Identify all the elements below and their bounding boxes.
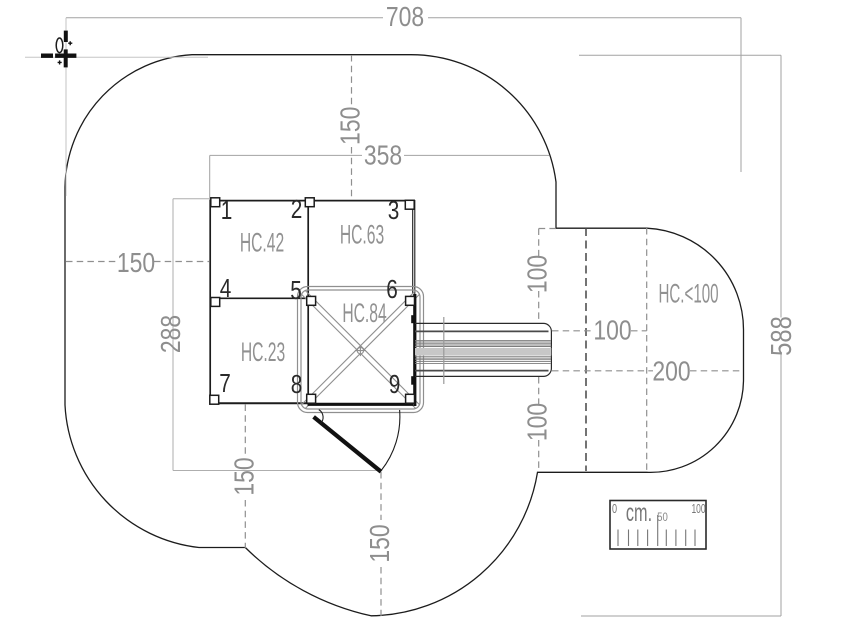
zone line dark dashed (585, 228, 587, 471)
svg-text:6: 6 (386, 275, 398, 304)
slide seam (443, 317, 445, 384)
post 9 (406, 394, 415, 403)
slide bed lines lower (415, 357, 551, 364)
post 2 (305, 198, 314, 207)
svg-text:2: 2 (291, 195, 303, 224)
post 7 (210, 395, 219, 404)
svg-text:288: 288 (156, 315, 187, 353)
svg-text:150: 150 (229, 457, 260, 495)
frame bottom rail (210, 402, 308, 404)
svg-text:100: 100 (593, 315, 631, 346)
centerline 150 top (351, 55, 353, 199)
dimension 708 extension right (740, 18, 742, 172)
dimension 708 extension left (65, 18, 67, 196)
origin plus bottom-left (58, 60, 62, 64)
svg-text:1: 1 (221, 196, 233, 225)
dimension 588 extension top (579, 54, 781, 56)
svg-text:50: 50 (657, 511, 668, 524)
slide rail bottom (415, 370, 549, 372)
post 4 (211, 298, 220, 307)
dimension 588 extension bottom (581, 615, 781, 617)
slide rail top (415, 330, 549, 332)
svg-text:708: 708 (386, 2, 424, 33)
post 6 (406, 296, 415, 305)
svg-text:4: 4 (220, 274, 232, 303)
svg-text:HC.63: HC.63 (340, 219, 384, 250)
gate hinge arc (319, 410, 323, 424)
dimension 358 extension left (209, 155, 211, 200)
deck frame inner (301, 290, 420, 409)
deck barrier right (413, 294, 416, 406)
frame middle rail vertical (307, 200, 309, 404)
post 1 (211, 198, 220, 207)
svg-text:150: 150 (365, 524, 396, 562)
safety zone rectangle left edge (172, 199, 174, 471)
deck center hub (355, 345, 366, 356)
centerline 150 left (66, 261, 209, 263)
dimension 708 line (66, 17, 741, 19)
svg-text:150: 150 (117, 248, 155, 279)
svg-text:7: 7 (219, 369, 231, 398)
play area outline (65, 55, 744, 616)
svg-text:HC.<100: HC.<100 (658, 278, 718, 309)
svg-text:100: 100 (523, 403, 554, 441)
slide bracket bottom (411, 376, 414, 385)
zone line dashed right (646, 228, 648, 471)
svg-text:588: 588 (765, 316, 798, 356)
safety zone rectangle bottom edge (173, 470, 381, 472)
svg-text:5: 5 (290, 276, 302, 305)
svg-text:8: 8 (291, 370, 303, 399)
dimension 588 line (780, 55, 782, 616)
frame top rail (210, 200, 415, 202)
safety zone rectangle top edge (173, 198, 214, 200)
deck barrier bottom (308, 403, 414, 406)
gate swing arc (381, 410, 400, 471)
origin label 0 (56, 38, 63, 53)
centerline 150 bottom-left (244, 405, 246, 549)
svg-text:cm.: cm. (626, 500, 652, 527)
slide bracket top (411, 315, 414, 323)
origin marker cross (41, 31, 76, 68)
scale bar box (610, 501, 706, 550)
frame right rail double (413, 200, 415, 294)
post 8 (307, 394, 316, 403)
svg-text:3: 3 (388, 196, 400, 225)
svg-text:100: 100 (691, 502, 705, 516)
svg-text:HC.42: HC.42 (240, 227, 284, 258)
deck cross brace 1 (302, 291, 420, 409)
svg-text:358: 358 (364, 140, 402, 171)
frame middle rail horizontal (210, 297, 307, 299)
centerline 150 bottom-center (380, 472, 382, 616)
svg-text:0: 0 (612, 503, 617, 517)
svg-text:150: 150 (335, 107, 366, 145)
dimension 358 line (210, 154, 549, 156)
origin extension horizontal (25, 56, 208, 58)
deck frame outer (298, 287, 424, 413)
svg-text:200: 200 (652, 356, 690, 387)
slide bed lines upper (415, 340, 551, 346)
slide body (415, 317, 551, 384)
centerline 100 right vertical (539, 229, 556, 473)
gate panel (314, 417, 381, 472)
deck cross brace 2 (302, 291, 420, 409)
origin plus top-right (68, 41, 72, 45)
slide bed gray band (415, 348, 551, 356)
centerline 100 horizontal (552, 330, 647, 332)
post 3 (405, 200, 414, 209)
frame left rail (209, 200, 211, 404)
centerline 200 horizontal (552, 370, 743, 372)
svg-text:HC.84: HC.84 (342, 298, 386, 329)
svg-text:HC.23: HC.23 (241, 337, 285, 368)
svg-text:9: 9 (389, 370, 401, 399)
svg-text:100: 100 (523, 255, 554, 293)
scale bar ticks (618, 515, 695, 546)
post 5 (307, 296, 316, 305)
